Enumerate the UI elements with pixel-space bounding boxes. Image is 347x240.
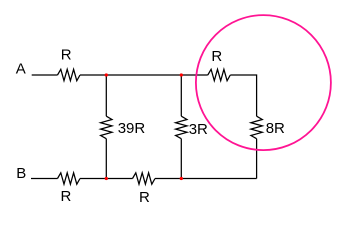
junction top-middle (180, 73, 183, 76)
junction bottom-left (105, 177, 108, 180)
svg-text:3R: 3R (189, 121, 208, 138)
junction top-left (105, 73, 108, 76)
highlight circle (pink) (196, 15, 331, 150)
wire 3R to bottom (180, 139, 182, 179)
wire bottom middle (80, 178, 133, 180)
svg-text:39R: 39R (118, 120, 146, 137)
svg-text:B: B (16, 165, 26, 182)
resistor R bottom-left (58, 173, 81, 184)
svg-text:A: A (16, 61, 26, 78)
svg-text:8R: 8R (266, 120, 285, 137)
resistor R top-right (208, 69, 231, 80)
wire branch 3R top (180, 75, 182, 116)
wire bottom right (155, 178, 257, 180)
resistor 3R (176, 116, 187, 139)
svg-text:R: R (61, 47, 72, 64)
wire top-right corner (230, 75, 256, 116)
junction bottom-middle (180, 177, 183, 180)
svg-text:R: R (211, 48, 222, 65)
wire top middle (80, 74, 208, 76)
wire 8R to bottom (256, 139, 258, 179)
svg-text:R: R (61, 188, 72, 205)
resistor 8R (251, 116, 262, 139)
svg-text:R: R (139, 189, 150, 206)
resistor R bottom-right (133, 173, 156, 184)
wire branch 39R top (105, 75, 107, 116)
wire B lead (31, 178, 58, 180)
resistor R top-left (58, 69, 81, 80)
resistor 39R (101, 116, 112, 139)
wire 39R to bottom (105, 139, 107, 179)
wire A lead (32, 74, 58, 76)
